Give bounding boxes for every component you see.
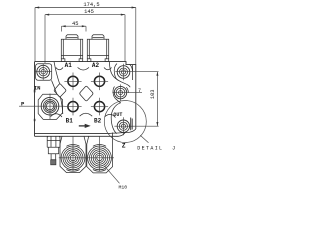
dimension 145 extension lines	[45, 15, 125, 63]
OUT boss curve	[111, 103, 121, 134]
M10 leader line	[104, 166, 119, 184]
dimension 174,5 line	[35, 2, 136, 9]
dimension 103	[150, 72, 158, 127]
relief valve RV1	[47, 136, 60, 164]
detail circle Z	[104, 101, 146, 143]
casting curve left-bottom	[60, 97, 62, 114]
valve body outline	[35, 62, 136, 137]
top-right mounting hole	[115, 64, 158, 81]
bottom scallop arcs	[51, 114, 62, 117]
svg-text:A2: A2	[92, 62, 100, 69]
bottom port hex boss left	[60, 136, 86, 172]
svg-text:M10: M10	[119, 184, 128, 190]
dimension 45 extension legs	[62, 26, 87, 31]
dimension 45 line	[62, 21, 87, 27]
top-right hole boss	[114, 64, 118, 81]
IN port	[19, 94, 65, 120]
svg-text:IN: IN	[34, 84, 41, 91]
top-left mounting hole boss	[36, 64, 52, 81]
svg-text:OUT: OUT	[113, 112, 122, 118]
flow arrow (bottom)	[79, 124, 91, 128]
svg-text:174,5: 174,5	[83, 2, 99, 8]
retaining tab right edge	[131, 118, 133, 131]
svg-text:145: 145	[84, 9, 94, 15]
svg-text:B1: B1	[66, 117, 74, 124]
casting web boss to IN	[52, 80, 57, 94]
svg-text:45: 45	[72, 21, 78, 27]
casting curve top-left	[54, 62, 60, 84]
bottom port P1 (threaded)	[59, 136, 88, 171]
IN port boss (octagon)	[38, 94, 62, 119]
top-left mounting hole	[35, 64, 52, 81]
detail leader line	[140, 135, 148, 143]
fitting F2 (top port plug right)	[87, 35, 108, 62]
fitting F1 (top port plug left)	[61, 35, 82, 62]
small diamond boss (left)	[54, 84, 66, 97]
dimension 174,5 extension lines	[35, 8, 136, 65]
port B2	[91, 98, 108, 116]
svg-text:B2: B2	[94, 117, 102, 124]
section tick marks on left edge	[34, 90, 36, 93]
dimension 145 line	[45, 9, 125, 15]
port A1	[64, 73, 81, 91]
bottom port hex boss right	[87, 133, 113, 173]
port B1	[64, 98, 81, 116]
OUT port	[114, 117, 158, 135]
svg-text:7: 7	[138, 88, 141, 94]
top scallop arcs	[56, 68, 63, 70]
bottom port P2 (threaded M10)	[85, 136, 114, 171]
center diamond boss	[80, 86, 93, 101]
svg-text:103: 103	[150, 89, 156, 99]
svg-text:A1: A1	[65, 62, 73, 69]
svg-text:DETAIL J: DETAIL J	[137, 146, 176, 152]
port A2	[91, 73, 108, 91]
mid-right hole boss	[113, 87, 116, 99]
svg-text:Z: Z	[122, 143, 126, 150]
casting S-curve right	[109, 62, 130, 88]
mid-right mounting hole	[112, 84, 142, 101]
